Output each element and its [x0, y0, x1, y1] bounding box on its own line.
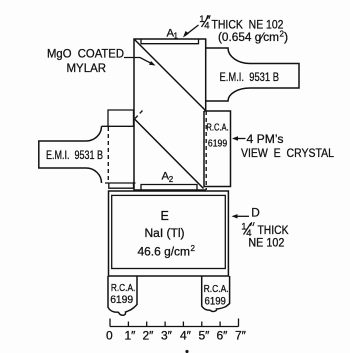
svg-text:MYLAR: MYLAR — [67, 61, 107, 75]
svg-text:NE 102: NE 102 — [248, 237, 284, 249]
svg-text:E.M.I. 9531 B: E.M.I. 9531 B — [46, 150, 103, 162]
svg-text:6199: 6199 — [208, 139, 228, 150]
svg-text:4″: 4″ — [180, 329, 192, 343]
svg-text:6199: 6199 — [205, 296, 226, 308]
svg-text:4 PM’s: 4 PM’s — [247, 132, 284, 146]
svg-text:5″: 5″ — [199, 329, 211, 343]
svg-text:1: 1 — [174, 32, 179, 41]
svg-text:VIEW E CRYSTAL: VIEW E CRYSTAL — [241, 146, 334, 160]
svg-text:2: 2 — [191, 244, 196, 253]
svg-text:R.C.A.: R.C.A. — [111, 283, 135, 294]
svg-text:2: 2 — [169, 175, 174, 184]
svg-text:4: 4 — [204, 21, 209, 32]
svg-text:R.C.A.: R.C.A. — [206, 123, 228, 134]
svg-text:E.M.I. 9531 B: E.M.I. 9531 B — [220, 72, 280, 84]
svg-text:46.6 g/cm: 46.6 g/cm — [138, 245, 191, 259]
svg-text:7″: 7″ — [235, 329, 247, 343]
svg-text:6″: 6″ — [217, 329, 229, 343]
svg-text:NaI (Tl): NaI (Tl) — [145, 226, 185, 240]
svg-text:): ) — [284, 30, 288, 44]
svg-text:E: E — [161, 209, 169, 223]
svg-text:D: D — [251, 206, 260, 220]
svg-text:R.C.A.: R.C.A. — [204, 284, 229, 295]
svg-text:0: 0 — [106, 329, 113, 343]
svg-text:3″: 3″ — [161, 329, 173, 343]
svg-text:THICK: THICK — [258, 225, 289, 237]
svg-text:(0.654 g∕cm: (0.654 g∕cm — [218, 30, 279, 44]
svg-text:6199: 6199 — [110, 294, 133, 306]
svg-text:MgO COATED: MgO COATED — [47, 47, 124, 61]
svg-text:1″: 1″ — [125, 329, 137, 343]
svg-text:2″: 2″ — [143, 329, 155, 343]
